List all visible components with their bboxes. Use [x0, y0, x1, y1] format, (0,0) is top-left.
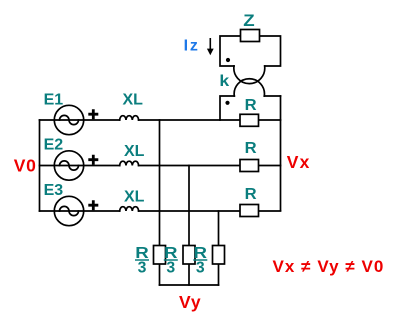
resistor R box row 2: [240, 160, 259, 172]
wire right bus vertical: [280, 96, 282, 211]
resistor R/3 box 3: [213, 246, 225, 265]
svg-text:Vx: Vx: [287, 152, 311, 172]
inductor XL phase 3: [120, 207, 139, 211]
wire tap phase 2 down: [188, 166, 190, 246]
wire phase 3 horizontal: [40, 210, 281, 212]
svg-text:3: 3: [196, 259, 205, 276]
inductor XL phase 2: [120, 161, 139, 165]
wire tap phase 1 down: [159, 120, 161, 246]
svg-text:XL: XL: [124, 189, 145, 206]
wire secondary loop left: [220, 96, 234, 120]
source E1 sine: [60, 115, 79, 124]
svg-text:E2: E2: [44, 137, 64, 154]
wire tap phase 3 down: [218, 211, 220, 246]
svg-text:R: R: [245, 97, 257, 114]
wire stub below R/3 box 2: [188, 264, 190, 285]
wire top loop left and top: [220, 36, 281, 66]
resistor R box row 3: [240, 205, 259, 217]
plus sign E1: [88, 109, 98, 119]
transformer primary arc: [234, 66, 265, 84]
svg-text:3: 3: [166, 259, 175, 276]
source E3 sine: [60, 206, 79, 215]
polarity dot primary: [226, 58, 230, 62]
source E2 circle: [54, 151, 83, 180]
svg-text:Z: Z: [243, 12, 254, 30]
wire secondary loop right: [264, 95, 280, 97]
polarity dot secondary: [225, 101, 229, 105]
wire stub below R/3 box 1: [159, 264, 161, 285]
svg-text:R: R: [245, 186, 257, 203]
inductor XL phase 1: [120, 116, 139, 120]
svg-text:XL: XL: [124, 143, 145, 160]
svg-text:k: k: [219, 73, 229, 90]
svg-text:XL: XL: [123, 92, 144, 109]
wire stub below R/3 box 3: [218, 264, 220, 285]
plus sign E2: [88, 155, 98, 165]
wire phase 1 horizontal: [40, 119, 281, 121]
label R/3 fraction 3: [193, 245, 207, 276]
wire bottom joining: [160, 284, 219, 286]
svg-text:Vx ≠ Vy ≠ V0: Vx ≠ Vy ≠ V0: [273, 257, 385, 276]
impedance Z box: [241, 30, 260, 42]
svg-text:V0: V0: [14, 156, 37, 176]
transformer secondary arc: [234, 79, 264, 96]
svg-text:3: 3: [138, 259, 147, 276]
resistor R/3 box 2: [183, 246, 195, 265]
label R/3 fraction 1: [135, 245, 149, 276]
wire left bus vertical: [39, 120, 41, 211]
label R/3 fraction 2: [164, 245, 178, 276]
svg-text:E3: E3: [44, 182, 64, 199]
svg-text:Vy: Vy: [179, 292, 201, 312]
source E3 circle: [54, 196, 83, 225]
plus sign E3: [88, 200, 98, 210]
svg-text:E1: E1: [44, 92, 64, 109]
resistor R box row 1: [240, 114, 259, 126]
wire phase 2 horizontal: [40, 165, 281, 167]
current arrow Iz: [207, 38, 214, 55]
svg-text:R: R: [245, 140, 257, 157]
svg-text:Iz: Iz: [184, 38, 200, 55]
source E1 circle: [54, 105, 83, 134]
resistor R/3 box 1: [154, 246, 166, 265]
source E2 sine: [60, 161, 79, 170]
